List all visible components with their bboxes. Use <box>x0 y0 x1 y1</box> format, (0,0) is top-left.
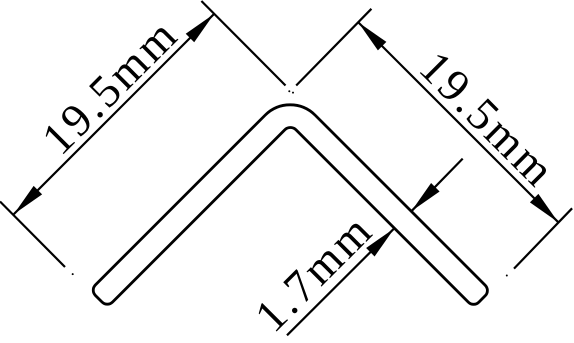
left dimension lower arrowhead <box>14 186 42 214</box>
svg-text:19.5mm: 19.5mm <box>32 8 188 164</box>
thickness lower arrowhead <box>366 228 394 256</box>
left dimension upper extension line <box>201 1 285 86</box>
thickness leader upper segment <box>411 159 462 212</box>
left dimension lower extension line <box>0 202 65 268</box>
angle profile outline <box>93 105 487 304</box>
apex datum point dot B <box>292 92 294 94</box>
left dimension line 19.5mm <box>14 14 214 214</box>
left tip datum point dot <box>72 273 74 275</box>
right tip datum point dot <box>506 275 508 277</box>
apex datum point dot A <box>288 90 290 92</box>
right dimension lower arrowhead <box>530 194 558 222</box>
left dimension upper arrowhead <box>186 14 214 42</box>
svg-text:19.5mm: 19.5mm <box>410 41 566 197</box>
svg-text:1.7mm: 1.7mm <box>245 203 383 341</box>
thickness upper arrowhead <box>411 183 439 211</box>
right dimension lower extension line <box>514 208 572 268</box>
right dimension upper extension line <box>296 9 371 86</box>
right dimension line 19.5mm <box>358 22 558 222</box>
thickness leader lower segment <box>287 228 394 335</box>
right dimension upper arrowhead <box>358 22 386 50</box>
